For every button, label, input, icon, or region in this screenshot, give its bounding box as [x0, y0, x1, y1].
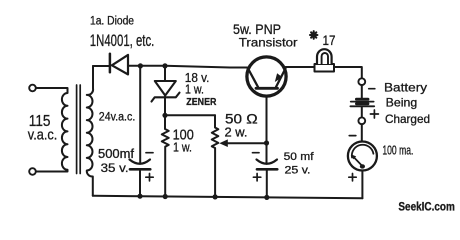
potentiometer R2 wiper arrowhead — [219, 139, 228, 147]
zener diode D2 lead from top wire — [164, 66, 166, 81]
asterisk star for lamp label — [310, 31, 317, 39]
capacitor C1 500mf straight positive plate — [130, 168, 150, 171]
svg-text:100 ma.: 100 ma. — [382, 144, 413, 158]
svg-text:1 w.: 1 w. — [173, 140, 192, 155]
transformer T1 core — [77, 85, 81, 174]
diode D1 1N4001 cathode bar — [109, 54, 112, 72]
svg-text:35 v.: 35 v. — [101, 161, 129, 175]
transformer T1 primary top terminal — [29, 85, 36, 92]
wire battery to meter — [361, 124, 363, 141]
meter M1 minus sign — [349, 135, 356, 137]
capacitor C2 minus sign — [253, 152, 260, 154]
transformer T1 secondary winding — [87, 66, 93, 196]
meter M1 scale arc — [352, 145, 374, 158]
lamp no.17 inner filament loop — [322, 53, 328, 64]
battery plate long positive 1 — [351, 101, 374, 103]
svg-text:Charged: Charged — [385, 112, 430, 126]
wire lamp to right corner — [334, 67, 362, 78]
wire battery plates to bottom terminal — [361, 107, 363, 118]
meter M1 needle — [354, 158, 362, 166]
svg-text:1 w.: 1 w. — [185, 83, 204, 97]
battery minus sign — [369, 88, 375, 90]
capacitor C1 minus sign — [146, 152, 153, 154]
svg-text:25 v.: 25 v. — [285, 165, 311, 177]
node junction dot R1 bottom — [163, 194, 168, 199]
bottom rail wire — [93, 196, 363, 199]
meter M1 circle — [348, 142, 377, 171]
wire node to potentiometer top — [165, 114, 215, 116]
transistor Q1 emitter lead — [276, 69, 286, 88]
battery plate long positive 2 — [350, 105, 374, 107]
transistor Q1 collector lead — [248, 69, 258, 88]
lamp no.17 base — [315, 64, 335, 72]
resistor R1 100 ohm 1w — [162, 115, 169, 196]
svg-text:24v.a.c.: 24v.a.c. — [99, 112, 136, 124]
svg-text:v.a.c.: v.a.c. — [28, 127, 58, 144]
node junction dot C2 bottom — [264, 195, 269, 200]
capacitor C2 lead to bottom rail — [266, 171, 268, 198]
diode D1 1N4001 triangle — [112, 55, 128, 75]
potentiometer R2 50 ohm 2w body — [212, 115, 219, 197]
node junction dot cap C1 tap — [138, 63, 143, 68]
wire terminal to battery plates — [361, 85, 363, 98]
capacitor C2 50mf curved negative plate — [257, 160, 278, 164]
wire transistor to lamp — [286, 66, 315, 68]
node junction dot zener/R1/pot — [162, 113, 167, 118]
battery bottom terminal circle — [358, 117, 365, 124]
battery plate short negative 2 — [356, 102, 368, 105]
svg-text:2 w.: 2 w. — [225, 126, 248, 140]
zener diode D2 triangle — [155, 81, 176, 96]
node junction dot C1 bottom — [137, 194, 142, 199]
svg-text:1N4001, etc.: 1N4001, etc. — [90, 32, 155, 50]
transformer T1 primary winding — [36, 88, 68, 172]
svg-text:Being: Being — [386, 96, 418, 110]
transistor Q1 base bar — [256, 87, 278, 90]
svg-text:1a. Diode: 1a. Diode — [90, 16, 134, 28]
wire secondary top to diode — [93, 65, 110, 67]
svg-text:500mf: 500mf — [98, 147, 135, 161]
node junction dot wiper/base/C2 — [264, 140, 269, 145]
capacitor C1 500mf lead from top wire — [139, 66, 141, 164]
meter M1 pivot dot — [360, 164, 365, 168]
capacitor C1 plus sign — [146, 174, 153, 181]
svg-text:ZENER: ZENER — [186, 96, 217, 108]
transistor Q1 base lead down to C2 — [266, 89, 268, 164]
capacitor C1 500mf curved negative plate — [130, 160, 151, 164]
potentiometer R2 wiper arm wire — [226, 142, 267, 144]
capacitor C1 lead to bottom rail — [139, 171, 141, 197]
meter M1 needle arrowhead — [351, 154, 356, 159]
svg-text:Battery: Battery — [384, 81, 427, 95]
wire diode to transistor — [128, 66, 248, 68]
svg-text:50 Ω: 50 Ω — [225, 112, 258, 127]
battery plate short negative 1 — [356, 98, 368, 101]
node junction dot pot bottom — [213, 194, 218, 199]
transformer T1 primary bottom terminal — [29, 168, 36, 175]
zener diode D2 bar with bent ends — [152, 93, 180, 102]
node junction dot zener tap — [162, 63, 167, 68]
svg-text:17: 17 — [323, 32, 336, 48]
lamp no.17 outer bulb dome — [317, 49, 332, 64]
zener diode D2 lead to node — [164, 97, 166, 116]
transistor Q1 circle — [247, 57, 286, 96]
svg-text:50 mf: 50 mf — [284, 151, 315, 163]
battery top terminal circle — [358, 78, 365, 85]
capacitor C2 plus sign — [253, 174, 260, 181]
transistor Q1 emitter arrowhead — [275, 73, 283, 82]
capacitor C2 50mf straight positive plate — [257, 168, 277, 171]
svg-text:Transistor: Transistor — [239, 35, 298, 49]
wire meter to bottom rail corner — [361, 171, 363, 199]
svg-text:SeekIC.com: SeekIC.com — [398, 200, 455, 214]
meter M1 plus sign — [349, 174, 356, 181]
battery plus sign — [370, 110, 378, 118]
